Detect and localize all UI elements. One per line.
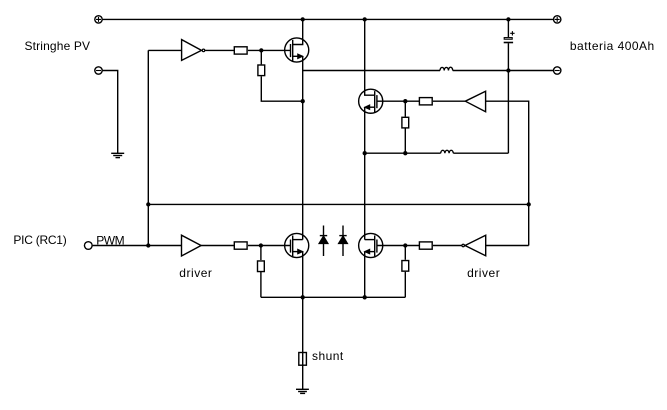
resistor R5 (Q3 gate series) xyxy=(234,242,247,249)
transistor Q2 (high-side right MOSFET, mirrored) xyxy=(359,19,383,113)
wire inverter U1 input xyxy=(148,49,181,51)
node R3/R4 junction xyxy=(403,99,407,103)
capacitor C1 (electrolytic) xyxy=(504,19,515,153)
resistor R2 (Q1 gate-source) xyxy=(258,50,265,75)
svg-text:driver: driver xyxy=(179,266,212,280)
node top bus / Q2 drain xyxy=(363,17,367,21)
node bottom bus / shunt xyxy=(301,295,305,299)
wire Q2 source column xyxy=(364,107,366,239)
node middle line right xyxy=(527,202,531,206)
wire R7 to inverter U4 xyxy=(433,245,462,247)
wire PWM to U3 xyxy=(93,245,182,247)
wire Q4 source xyxy=(364,252,366,298)
node capacitor bottom xyxy=(506,68,510,72)
wire U4 input from right vertical xyxy=(486,245,529,247)
node R7/R8 junction xyxy=(403,243,407,247)
node R4 bottom / L2 wire xyxy=(403,151,407,155)
driver U3 (buffer, points right) xyxy=(182,235,202,256)
inductor L2 xyxy=(441,150,454,153)
wire Q2 source to L2 xyxy=(365,152,441,154)
svg-text:PWM: PWM xyxy=(96,234,124,248)
wire R3 to driver U2 xyxy=(433,100,465,102)
wire PV- to ground xyxy=(103,71,118,154)
terminal PV- xyxy=(95,67,102,74)
resistor R8 (Q4 gate-source) xyxy=(402,246,409,298)
node Q1 source xyxy=(301,99,305,103)
svg-text:PIC (RC1): PIC (RC1) xyxy=(13,233,66,247)
wire U3 output to R5 xyxy=(201,245,234,247)
transistor Q3 (low-side left MOSFET) xyxy=(285,233,309,257)
wire Q1 source column xyxy=(302,56,304,239)
inverter U1 (top driver) xyxy=(182,40,205,61)
terminal battery+ xyxy=(554,16,561,23)
wire Q2 gate xyxy=(377,100,419,102)
node top bus / capacitor xyxy=(506,17,510,21)
node top bus / Q1 drain xyxy=(301,17,305,21)
terminal PV+ xyxy=(95,16,102,23)
wire Q3 source to shunt and ground xyxy=(302,252,304,390)
resistor R4 (Q2 gate-source) xyxy=(402,101,409,153)
resistor shunt xyxy=(299,353,307,366)
wire Q4 gate xyxy=(377,245,419,247)
resistor R1 (Q1 gate series) xyxy=(234,47,247,54)
diode D2 xyxy=(339,226,348,257)
inductor L1 xyxy=(440,67,453,70)
wire top bus (PV+ to battery+) xyxy=(103,18,554,20)
transistor Q4 (low-side right MOSFET, mirrored) xyxy=(359,233,383,257)
node R1/R2 junction xyxy=(259,48,263,52)
node middle line left xyxy=(146,202,150,206)
resistor R6 (Q3 gate-source) xyxy=(258,246,265,298)
svg-text:shunt: shunt xyxy=(312,349,344,363)
inverter U4 (points left, bubble at output) xyxy=(462,235,486,256)
svg-text:Stringhe PV: Stringhe PV xyxy=(25,39,91,53)
driver U2 (buffer, points left) xyxy=(465,91,485,111)
svg-text:driver: driver xyxy=(467,266,500,280)
resistor R3 (Q2 gate series) xyxy=(419,98,432,105)
wire battery-minus bus xyxy=(303,70,440,72)
wire source bus (bottom) xyxy=(261,296,405,298)
wire L2 to battery-minus node xyxy=(453,152,508,154)
node bottom bus / Q4 source xyxy=(363,295,367,299)
wire U1 output to R1 xyxy=(205,49,234,51)
node Q2 source / L2 wire xyxy=(363,151,367,155)
wire middle feedback line xyxy=(148,203,528,205)
node R5/R6 junction xyxy=(259,243,263,247)
terminal PWM input xyxy=(84,242,92,250)
wire U2 input from right vertical xyxy=(486,101,529,245)
transistor Q1 (high-side left MOSFET) xyxy=(285,19,309,62)
ground (shunt) xyxy=(296,389,309,393)
wire R1 to Q1 gate xyxy=(248,49,291,51)
node PWM/feedback junction xyxy=(146,243,150,247)
resistor R7 (Q4 gate series) xyxy=(419,242,432,249)
wire R5 to Q3 gate xyxy=(248,245,291,247)
ground (PV-) xyxy=(111,153,124,157)
terminal battery- xyxy=(554,67,561,74)
wire R2 bottom to Q1 source node xyxy=(261,76,302,101)
wire L1 to battery- xyxy=(453,70,554,72)
diode D1 xyxy=(319,226,328,257)
svg-text:batteria 400Ah: batteria 400Ah xyxy=(570,39,655,53)
wire left feedback vertical xyxy=(147,50,149,245)
